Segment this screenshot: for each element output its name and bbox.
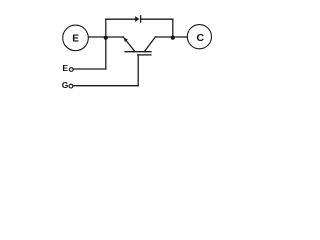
wire top branch cathode side [141,18,173,20]
svg-text:E: E [62,63,68,73]
transistor Q1 collector lead [155,36,172,38]
wire right riser [172,19,174,37]
transistor Q1 emitter diagonal [123,37,134,51]
wire E terminal to left node [89,36,106,38]
wire auxiliary emitter horizontal [74,68,106,70]
transistor Q1 collector diagonal [145,37,156,51]
transistor Q1 gate plate [138,54,151,56]
svg-text:E: E [72,34,79,45]
wire gate horizontal [73,85,138,87]
wire gate lead vertical [137,55,139,86]
terminal C (collector) [187,25,211,49]
wire right node to C terminal [173,36,188,38]
transistor Q1 body bar [125,51,151,53]
svg-text:C: C [197,32,205,44]
node junction dot right [171,36,175,40]
wire left riser (top branch to aux emitter corner) [105,19,107,69]
transistor Q1 (IGBT) emitter lead [106,36,124,38]
terminal G (gate) [69,84,73,88]
diode D1 [135,16,140,22]
terminal E (main emitter) [63,25,89,51]
terminal e (auxiliary emitter) [69,68,73,72]
wire top branch anode side [106,18,136,20]
svg-text:G: G [62,80,69,90]
node junction dot left [104,36,108,40]
transistor Q1 emitter arrow [124,37,128,42]
